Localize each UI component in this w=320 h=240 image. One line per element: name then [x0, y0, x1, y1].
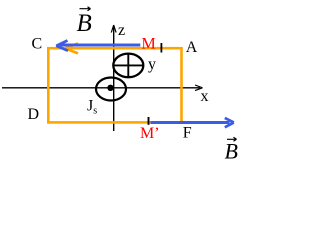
vector B label (bottom right) — [225, 137, 238, 163]
svg-text:M’: M’ — [140, 125, 160, 142]
svg-text:M: M — [142, 36, 156, 53]
vector B arrow (top, pointing left) — [56, 41, 140, 51]
tick at point M' (bottom edge) — [148, 117, 150, 125]
z-axis — [111, 25, 116, 131]
svg-text:A: A — [186, 39, 198, 56]
tick at point M (top edge) — [160, 43, 162, 53]
svg-text:F: F — [183, 125, 192, 142]
svg-text:y: y — [148, 56, 156, 73]
orange arrowhead on top edge (circulation direction, pointing left) — [65, 43, 78, 53]
y-axis symbol: ellipse with cross (into page) — [113, 54, 143, 78]
x-axis — [2, 85, 203, 91]
svg-text:D: D — [28, 106, 40, 123]
svg-text:B: B — [77, 10, 92, 37]
surface current Js symbol: ellipse with dot (out of page) — [96, 78, 126, 101]
vector B arrow (bottom, pointing right) — [151, 118, 234, 127]
svg-text:C: C — [32, 36, 43, 53]
svg-text:B: B — [225, 139, 238, 164]
svg-text:x: x — [201, 88, 209, 105]
vector B label (top left) — [77, 7, 92, 37]
Amperian loop rectangle CADF — [48, 48, 181, 122]
svg-text:z: z — [118, 22, 125, 39]
